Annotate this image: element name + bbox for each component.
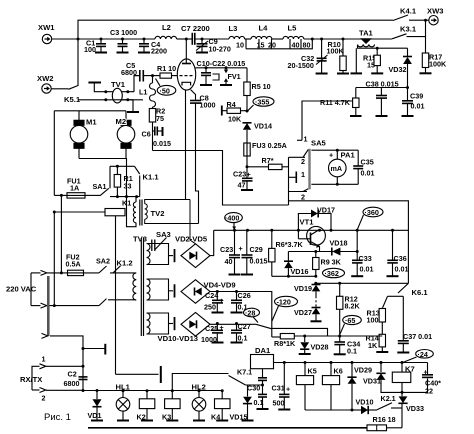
wire bridge3 out xyxy=(210,324,272,329)
switch K1.2 xyxy=(108,259,136,300)
wire SA5 out xyxy=(289,201,409,283)
motor M2 xyxy=(116,111,135,159)
svg-text:1000: 1000 xyxy=(200,101,216,110)
svg-text:R9 3K: R9 3K xyxy=(321,258,342,267)
svg-text:15: 15 xyxy=(257,41,265,50)
svg-text:K7.1: K7.1 xyxy=(237,368,252,377)
svg-text:2200: 2200 xyxy=(151,47,167,56)
capacitor bank C10-C22 xyxy=(196,59,248,85)
resistor R1 xyxy=(156,64,176,78)
svg-text:L1: L1 xyxy=(139,88,147,97)
svg-text:R11 4.7K: R11 4.7K xyxy=(320,98,351,107)
lamp HL1 xyxy=(116,383,131,421)
svg-text:C33: C33 xyxy=(359,254,372,263)
resistor R5 xyxy=(244,68,271,111)
wire C7 to L3 xyxy=(195,38,229,40)
IC DA1 xyxy=(251,346,274,378)
wire M1 M2 top xyxy=(54,110,126,112)
resistor R14 xyxy=(366,334,389,353)
diode VD19 xyxy=(294,282,321,296)
svg-text:100: 100 xyxy=(367,316,379,325)
svg-text:·400: ·400 xyxy=(225,214,239,223)
wire R1 top xyxy=(110,165,135,167)
node R4/VD14 xyxy=(246,110,249,113)
wire -65 row xyxy=(295,335,383,337)
resistor R1 (33) xyxy=(114,165,133,197)
surge arrester FV1 xyxy=(220,66,241,85)
svg-text:R1 10: R1 10 xyxy=(157,64,176,73)
svg-text:K6: K6 xyxy=(334,367,343,376)
callout -65 xyxy=(340,315,361,334)
svg-text:·362: ·362 xyxy=(325,269,339,278)
capacitor C23 xyxy=(220,229,243,275)
svg-text:R5 10: R5 10 xyxy=(252,82,271,91)
resistor R8 xyxy=(272,334,296,349)
diode VD15 xyxy=(230,385,254,422)
wire VD18 row xyxy=(288,251,357,253)
resistor R11 xyxy=(320,88,362,117)
capacitor C8 xyxy=(190,94,216,224)
callout +360 xyxy=(357,207,383,229)
transformer TV3 xyxy=(133,235,150,337)
rail -362 row xyxy=(316,282,409,284)
wire heater return xyxy=(153,151,289,206)
wire K1 top xyxy=(110,196,140,198)
wire K1 right to TV2 xyxy=(127,197,137,227)
svg-text:VD19: VD19 xyxy=(294,284,312,293)
capacitor C36 xyxy=(387,229,409,276)
svg-text:6800: 6800 xyxy=(64,379,80,388)
svg-text:C7 2200: C7 2200 xyxy=(181,24,210,33)
wire XW1 to L2 xyxy=(52,38,155,40)
resistor R15 xyxy=(363,47,383,74)
inductor L2 xyxy=(155,23,177,39)
resistor R9 xyxy=(313,250,342,278)
svg-text:C6: C6 xyxy=(142,130,151,139)
capacitor C5 xyxy=(121,61,156,82)
svg-text:·65: ·65 xyxy=(345,316,355,325)
svg-text:10: 10 xyxy=(236,41,244,50)
svg-text:C2: C2 xyxy=(68,370,77,379)
wire top rail xyxy=(78,20,393,39)
wire L2 to C7 xyxy=(177,38,192,40)
svg-text:20: 20 xyxy=(268,41,276,50)
callout +400 xyxy=(225,213,243,230)
capacitor C4 xyxy=(138,38,167,56)
connector XW1 xyxy=(38,23,55,44)
svg-text:+: + xyxy=(239,244,243,253)
capacitor C1 xyxy=(84,38,107,55)
switch SA1 xyxy=(93,166,111,195)
svg-text:·360: ·360 xyxy=(365,208,379,217)
svg-text:2: 2 xyxy=(301,157,305,166)
svg-text:0.01: 0.01 xyxy=(360,265,374,274)
diode VD32 xyxy=(389,48,413,87)
svg-text:100K: 100K xyxy=(429,60,447,69)
resistor R16 xyxy=(367,415,402,431)
svg-text:DA1: DA1 xyxy=(255,346,271,355)
relay K2 xyxy=(137,389,155,421)
svg-text:FV1: FV1 xyxy=(228,72,241,81)
svg-text:SA1: SA1 xyxy=(93,182,107,191)
rail lamps top xyxy=(83,390,223,392)
relay K3 xyxy=(162,389,180,421)
diode VD14 xyxy=(243,122,272,144)
capacitor C34 xyxy=(334,336,360,356)
svg-text:K6.1: K6.1 xyxy=(412,288,429,297)
svg-text:C35: C35 xyxy=(361,158,374,167)
diode VD28 xyxy=(299,335,329,355)
capacitor C37 xyxy=(397,296,432,352)
svg-text:20-1500: 20-1500 xyxy=(288,61,314,70)
ground TA1 xyxy=(351,72,363,74)
svg-text:·355: ·355 xyxy=(255,98,269,107)
svg-text:SA5: SA5 xyxy=(311,139,327,148)
svg-text:L2: L2 xyxy=(162,23,171,32)
rail C38 xyxy=(356,87,408,89)
trimmer C32 xyxy=(288,38,328,74)
svg-text:VD28: VD28 xyxy=(311,343,329,352)
svg-text:PA1: PA1 xyxy=(341,151,356,160)
connector RX/TX xyxy=(20,355,83,403)
resistor R2 xyxy=(149,107,165,151)
wire 220 bottom xyxy=(47,305,99,307)
connector XW3 xyxy=(427,7,443,25)
svg-text:VD14: VD14 xyxy=(254,122,272,131)
switch SA5 with wafer xyxy=(289,139,327,206)
callout +24 xyxy=(403,350,433,363)
callout -355 xyxy=(248,97,274,111)
svg-text:22: 22 xyxy=(425,387,433,396)
svg-text:80: 80 xyxy=(303,41,311,50)
svg-text:RX/TX: RX/TX xyxy=(20,375,42,384)
svg-text:C23: C23 xyxy=(233,170,246,179)
diode VD29 xyxy=(347,361,372,410)
svg-text:C31: C31 xyxy=(272,384,285,393)
thick mains run xyxy=(47,276,50,336)
svg-text:VD10-VD13: VD10-VD13 xyxy=(158,334,199,343)
resistor R10 xyxy=(327,38,350,74)
inductor L4 xyxy=(251,24,283,40)
capacitor C29 xyxy=(241,229,268,275)
diode VD31 xyxy=(363,373,386,385)
svg-text:0.1: 0.1 xyxy=(238,334,248,343)
wire K3 riser xyxy=(172,374,228,391)
connector XW2 xyxy=(37,74,53,93)
resistor R6 xyxy=(269,229,304,276)
bridge VD4-VD9 xyxy=(181,280,236,304)
lamp HL2 xyxy=(192,383,206,421)
node XW3 drop xyxy=(424,19,427,22)
svg-text:L4: L4 xyxy=(259,24,269,33)
wire FU1 branch down xyxy=(60,195,62,273)
rail +360 top xyxy=(214,229,409,231)
wire 220 top xyxy=(47,272,99,274)
trimmer C9 xyxy=(196,37,231,54)
current transformer TA1 xyxy=(358,29,375,47)
svg-text:XW3: XW3 xyxy=(427,7,443,16)
wire SA5 pos1 to R11 xyxy=(302,101,353,140)
svg-text:+: + xyxy=(329,151,333,160)
capacitor C33 xyxy=(351,229,373,276)
capacitor C38 xyxy=(366,80,399,117)
capacitor C31 xyxy=(272,361,291,410)
callout +28 xyxy=(244,308,260,322)
svg-text:Рис. 1: Рис. 1 xyxy=(44,412,71,423)
diode VD30 xyxy=(351,398,378,415)
capacitor C25 xyxy=(201,322,224,344)
stub terminal xyxy=(83,348,105,350)
winding S2 leads xyxy=(147,279,169,300)
relay K4 xyxy=(211,389,230,421)
wire motor bottoms xyxy=(79,159,127,197)
svg-text:C30: C30 xyxy=(247,384,260,393)
svg-text:K2.1: K2.1 xyxy=(381,394,396,403)
svg-text:·24: ·24 xyxy=(418,350,428,359)
svg-text:2: 2 xyxy=(301,193,305,202)
TA1 secondary rail xyxy=(358,45,408,48)
svg-text:220 VAC: 220 VAC xyxy=(6,285,37,294)
svg-text:VD29: VD29 xyxy=(354,366,372,375)
svg-text:1A: 1A xyxy=(70,184,79,193)
switch K7.1 xyxy=(229,368,265,387)
svg-text:100K: 100K xyxy=(327,46,345,55)
switch SA3 xyxy=(152,230,171,251)
resistor R7 xyxy=(247,156,289,170)
svg-text:C38 0.015: C38 0.015 xyxy=(366,80,399,89)
capacitor C6 xyxy=(142,127,172,149)
svg-text:mA: mA xyxy=(331,164,343,173)
svg-text:VD4-VD9: VD4-VD9 xyxy=(204,281,236,290)
svg-text:·50: ·50 xyxy=(160,86,170,95)
svg-text:R16 18: R16 18 xyxy=(373,415,396,424)
svg-text:+: + xyxy=(286,385,290,394)
wire bridge1 out xyxy=(210,230,214,255)
svg-text:0.015: 0.015 xyxy=(153,139,171,148)
svg-text:R8*1K: R8*1K xyxy=(274,339,296,348)
svg-text:47: 47 xyxy=(238,181,246,190)
svg-text:VD33: VD33 xyxy=(406,404,424,413)
node C9 xyxy=(201,38,204,41)
svg-text:TV2: TV2 xyxy=(151,209,165,218)
node anode xyxy=(185,38,188,41)
callout -362 xyxy=(323,268,345,278)
resistor R13 xyxy=(367,308,386,335)
svg-text:TV1: TV1 xyxy=(111,80,126,89)
svg-text:SA2: SA2 xyxy=(96,257,110,266)
svg-text:10-270: 10-270 xyxy=(209,45,231,54)
relay K5 xyxy=(296,361,316,410)
svg-text:0.1: 0.1 xyxy=(347,347,357,356)
switch K4.1 xyxy=(393,7,429,21)
svg-text:K1.2: K1.2 xyxy=(117,259,133,268)
capacitor C30 xyxy=(247,378,269,409)
switch K3.1 xyxy=(345,25,426,40)
svg-text:VD18: VD18 xyxy=(330,239,348,248)
svg-text:TA1: TA1 xyxy=(359,29,374,38)
svg-text:K3.1: K3.1 xyxy=(400,25,417,34)
diode VD17 loop xyxy=(297,206,335,239)
capacitor C40 xyxy=(422,368,441,396)
svg-text:VD10: VD10 xyxy=(356,398,374,407)
svg-text:10K: 10K xyxy=(228,115,242,124)
svg-text:L3: L3 xyxy=(229,24,238,33)
svg-text:C23: C23 xyxy=(220,245,233,254)
capacitor C2 xyxy=(64,370,88,389)
svg-text:VD1: VD1 xyxy=(88,411,102,420)
svg-text:C37 0.01: C37 0.01 xyxy=(403,332,432,341)
svg-text:C3 1000: C3 1000 xyxy=(110,28,137,37)
inductor L5 xyxy=(283,24,345,40)
svg-text:XW2: XW2 xyxy=(37,74,53,83)
diode VD1 xyxy=(88,389,104,421)
diode VD33 xyxy=(398,391,424,428)
capacitor C26 xyxy=(231,290,251,313)
resistor R12 xyxy=(337,282,361,338)
svg-text:C10-C22 0.015: C10-C22 0.015 xyxy=(197,59,246,68)
svg-text:VD2-VD5: VD2-VD5 xyxy=(175,235,208,244)
capacitor C39 xyxy=(402,88,425,117)
220 VAC source xyxy=(6,270,47,308)
diode VD16 xyxy=(284,252,308,278)
rail bottom relays xyxy=(305,409,377,411)
svg-text:0.5A: 0.5A xyxy=(66,260,81,269)
svg-text:C29: C29 xyxy=(250,245,263,254)
svg-text:FU3 0.25A: FU3 0.25A xyxy=(252,141,287,150)
tap bus with taps 10 15 20 40 80 xyxy=(236,38,314,50)
switch K6.1 xyxy=(383,283,429,307)
callout -50 xyxy=(156,79,176,96)
capacitor C35 xyxy=(353,150,374,184)
svg-text:250: 250 xyxy=(204,303,216,312)
svg-text:R6*3.7K: R6*3.7K xyxy=(276,240,304,249)
bridge VD2-VD5 xyxy=(175,235,210,268)
svg-text:C25: C25 xyxy=(205,324,218,333)
capacitor C28 xyxy=(233,167,253,190)
capacitor C3 xyxy=(110,28,137,53)
svg-text:C26: C26 xyxy=(238,291,251,300)
inductor L3 xyxy=(229,24,252,39)
svg-text:TV3: TV3 xyxy=(133,235,147,244)
wire bridge2 out xyxy=(210,292,272,338)
svg-text:K4.1: K4.1 xyxy=(400,7,417,16)
transformer TV1 xyxy=(88,76,140,112)
svg-text:2: 2 xyxy=(42,394,46,403)
svg-text:40: 40 xyxy=(292,41,300,50)
fuse FU3 xyxy=(244,141,287,167)
svg-text:K5: K5 xyxy=(308,367,317,376)
resistor R17 xyxy=(420,20,447,73)
wire K5.1 to TV1 xyxy=(78,99,143,101)
svg-text:M2: M2 xyxy=(116,117,127,126)
wire RX/TX riser xyxy=(82,349,84,391)
bridge VD10-VD13 xyxy=(158,313,211,344)
fuse FU1 xyxy=(54,177,100,199)
triode tube VL1 xyxy=(172,39,196,200)
diode VD27 xyxy=(294,308,322,322)
svg-text:VT1: VT1 xyxy=(300,218,315,227)
svg-text:1K: 1K xyxy=(368,341,378,350)
svg-text:75: 75 xyxy=(156,114,164,123)
capacitor C24 xyxy=(204,290,224,313)
capacitor C27 xyxy=(231,322,251,343)
inductor L1 xyxy=(139,74,156,107)
diode VD18 xyxy=(330,239,348,256)
svg-text:1: 1 xyxy=(42,355,46,364)
motor M1 xyxy=(70,111,97,159)
svg-text:VD16: VD16 xyxy=(291,267,309,276)
capacitor C7 xyxy=(181,24,210,45)
svg-text:·28: ·28 xyxy=(245,309,255,318)
switch K5.1 xyxy=(51,39,81,104)
bottom chassis line xyxy=(88,427,367,429)
svg-text:0.01: 0.01 xyxy=(361,169,375,178)
switch K2.1 xyxy=(377,394,402,410)
svg-text:K1.1: K1.1 xyxy=(143,173,160,182)
svg-text:XW1: XW1 xyxy=(38,23,55,32)
svg-text:VD27: VD27 xyxy=(294,308,312,317)
svg-text:VD32: VD32 xyxy=(389,65,407,74)
svg-text:M1: M1 xyxy=(86,118,97,127)
svg-text:C39: C39 xyxy=(410,92,423,101)
rail +24 xyxy=(274,362,428,364)
svg-text:500: 500 xyxy=(273,399,285,408)
transformer TV2 xyxy=(133,197,198,244)
winding S3 leads xyxy=(147,313,169,334)
fuse FU2 xyxy=(66,253,84,276)
wire -120 branch xyxy=(272,328,328,336)
resistor R4 xyxy=(222,100,247,124)
relay K6 xyxy=(322,361,342,410)
relay K7 box xyxy=(380,361,428,392)
svg-text:SA3: SA3 xyxy=(156,230,171,239)
switch SA2 xyxy=(96,257,110,306)
wire R6 to R9 bottom xyxy=(272,275,316,277)
svg-text:1: 1 xyxy=(304,135,308,144)
svg-text:-120: -120 xyxy=(277,298,291,307)
callout -120 xyxy=(272,296,298,321)
svg-text:100: 100 xyxy=(84,45,96,54)
transistor VT1 xyxy=(298,218,325,252)
svg-text:C36: C36 xyxy=(394,254,407,263)
winding S1 leads xyxy=(147,244,169,265)
node at x78 on XW1 wire xyxy=(77,38,80,41)
switch K1.1 xyxy=(135,166,160,196)
svg-text:0.01: 0.01 xyxy=(395,265,409,274)
meter PA1 xyxy=(311,149,358,186)
relay K1 xyxy=(53,199,161,384)
svg-text:L5: L5 xyxy=(288,24,298,33)
svg-text:33: 33 xyxy=(124,182,132,191)
dashed link VD19-VD27 xyxy=(315,296,317,307)
node FU3 bottom xyxy=(246,165,249,168)
svg-text:8.2K: 8.2K xyxy=(345,302,361,311)
svg-text:1: 1 xyxy=(301,170,305,179)
